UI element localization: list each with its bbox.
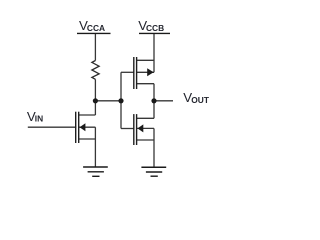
svg-text:OUT: OUT: [191, 95, 210, 105]
svg-text:CCA: CCA: [87, 23, 105, 33]
svg-text:IN: IN: [35, 114, 43, 124]
svg-text:CCB: CCB: [146, 23, 164, 33]
